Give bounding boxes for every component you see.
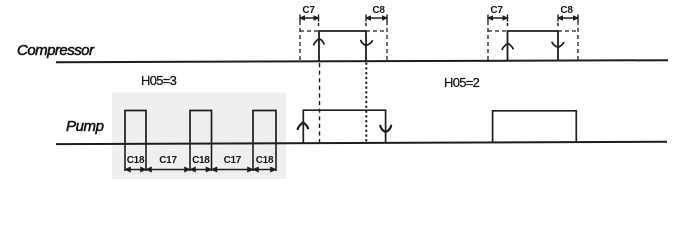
compressor pulse 1 (solid) [319, 31, 366, 62]
tick t6 under pump pulse 3 fall [275, 144, 277, 172]
svg-text:Compressor: Compressor [17, 42, 95, 59]
dimension C7 (right group) [488, 15, 508, 22]
svg-text:C18: C18 [192, 155, 210, 166]
shaded region H05=3 [112, 93, 286, 180]
dimension line C18 (1st) [126, 168, 145, 172]
dashed tail extension of compressor pulse 1 (C8) [366, 30, 387, 32]
up arrow on compressor pulse 1 rise [314, 39, 325, 46]
tick t4 under pump pulse 2 fall [211, 144, 213, 172]
svg-text:C8: C8 [372, 5, 385, 16]
pump pulse 4 (wide, under H05=3 group) [303, 110, 385, 143]
dashed lead-in extension of compressor pulse 2 (C7) [488, 30, 508, 32]
pump pulse 1 [125, 111, 146, 144]
svg-text:H05=2: H05=2 [444, 75, 480, 90]
dotted drop line from compressor pulse 1 fall to pump pulse 4 [365, 63, 367, 143]
compressor pulse 2 (solid) [508, 31, 559, 61]
svg-text:Pump: Pump [66, 118, 104, 135]
tick t1 under pump pulse 1 rise [124, 144, 126, 172]
pump pulse 5 (wide, under H05=2 group) [493, 111, 577, 143]
pump pulse 3 [253, 111, 276, 144]
up arrow on compressor pulse 2 rise [502, 43, 513, 50]
svg-text:C7: C7 [490, 5, 503, 16]
small dash below C8 dimension left tick (right group) [557, 23, 559, 26]
tick t3 under pump pulse 2 rise [189, 144, 191, 172]
dimension C7 (left group) [300, 15, 319, 22]
tick t2 under pump pulse 1 fall [145, 144, 147, 172]
down arrow on compressor pulse 1 fall [361, 40, 373, 46]
small dash below C8 dimension left tick (left group) [365, 23, 367, 26]
dashed vertical at C7 start (left group) [299, 21, 301, 61]
dashed vertical at C8 end (right group) [577, 21, 579, 61]
svg-text:C8: C8 [560, 5, 573, 16]
dashed vertical at C8 end (left group) [386, 21, 388, 61]
svg-text:C7: C7 [302, 5, 315, 16]
down arrow on pump pulse 4 fall [380, 125, 391, 132]
dashed vertical at C7 start (right group) [487, 21, 489, 61]
svg-text:C18: C18 [127, 155, 145, 166]
dimension C8 (left group) [366, 15, 387, 22]
svg-text:C17: C17 [159, 155, 177, 166]
svg-text:H05=3: H05=3 [141, 73, 177, 88]
dimension line C18 (2nd) [191, 168, 211, 172]
small dash below C7 dimension right tick (right group) [507, 23, 509, 26]
svg-text:C17: C17 [224, 155, 242, 166]
small dash below C7 dimension right tick (left group) [318, 23, 320, 26]
dimension C8 (right group) [558, 15, 578, 22]
dashed lead-in extension of compressor pulse 1 (C7) [300, 30, 319, 32]
svg-text:C18: C18 [256, 155, 274, 166]
dashed drop line from compressor pulse 1 rise to pump pulse 4 [319, 63, 321, 143]
dimension line C18 (3rd) [254, 168, 275, 172]
compressor baseline wire [56, 60, 668, 62]
up arrow on pump pulse 4 rise [298, 122, 309, 130]
dimension line C17 (1st) [147, 168, 189, 172]
dimension line C17 (2nd) [213, 168, 253, 172]
tick t5 under pump pulse 3 rise [252, 144, 254, 172]
pump pulse 2 [190, 111, 212, 144]
down arrow on compressor pulse 2 fall [552, 42, 564, 48]
pump baseline wire [56, 142, 667, 144]
dashed tail extension of compressor pulse 2 (C8) [558, 30, 578, 32]
